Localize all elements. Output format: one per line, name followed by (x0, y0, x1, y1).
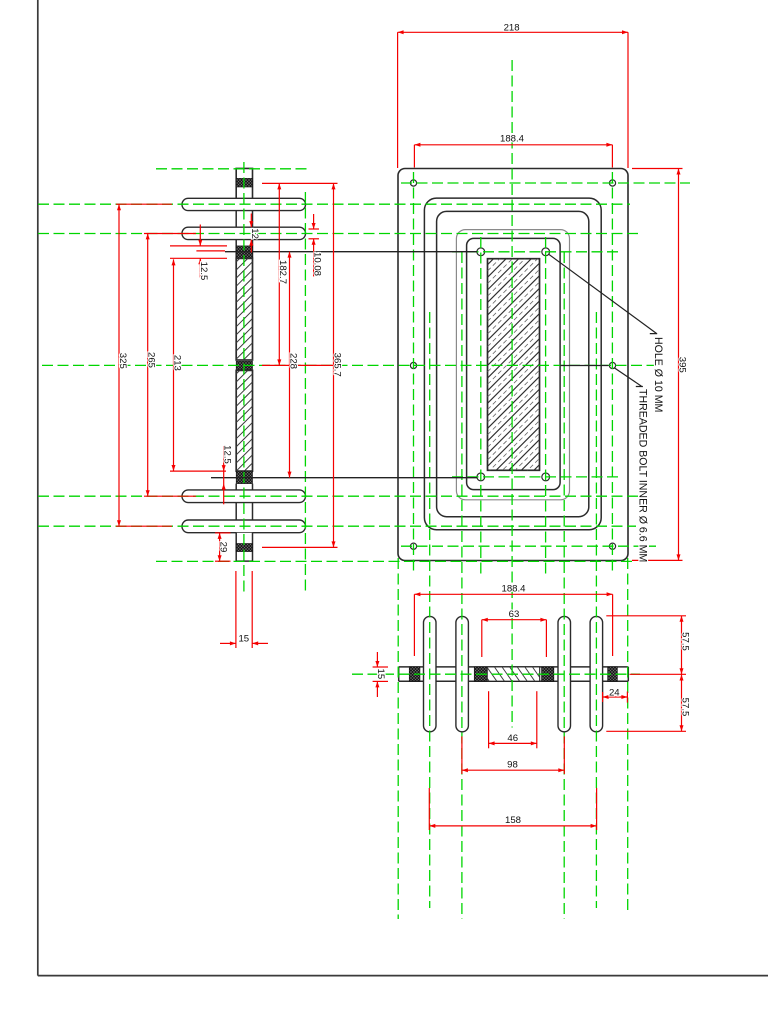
dim 218 ext left (397, 32, 399, 168)
bottom fin B (456, 616, 469, 731)
svg-text:57.5: 57.5 (679, 698, 690, 717)
section fin 1 (182, 198, 306, 210)
centreline hole col right (611, 172, 613, 572)
centreline fin3 (38, 495, 638, 497)
dim 57.5 lower (681, 674, 683, 731)
plate step 5 outline (467, 238, 560, 489)
svg-text:10.08: 10.08 (311, 252, 322, 276)
bottom hatched core (487, 667, 540, 681)
dim 29 ticks (215, 532, 231, 534)
dim 15 bv arrows (376, 652, 378, 667)
section hatched shaft upper (236, 258, 252, 360)
dim 10.08 arrows (313, 214, 315, 229)
svg-text:12.5: 12.5 (198, 262, 209, 281)
centreline plate right edge (627, 558, 629, 914)
plate step 2 outline (424, 198, 601, 530)
section fin 3 (182, 490, 306, 503)
dim 15 left ext (235, 571, 237, 648)
svg-text:228: 228 (287, 353, 298, 369)
bolt circle top-right (542, 248, 550, 256)
centreline bottom view (352, 673, 640, 675)
section middle band (236, 361, 252, 369)
centreline hole row bottom (401, 545, 656, 547)
dim 228 ext stub (196, 250, 225, 252)
centreline plate axis (511, 60, 513, 728)
centreline bolt row top (452, 251, 622, 253)
dim 46 line (489, 742, 537, 744)
hole mid-right (609, 362, 615, 368)
leader hole label (549, 254, 658, 333)
dim 228 line (289, 252, 291, 478)
dim 57.5 upper (681, 616, 683, 675)
hole bottom-right (609, 543, 615, 549)
hole top-right (609, 180, 615, 186)
dim 12 arrows (250, 214, 252, 228)
plate step 4 outline (456, 230, 569, 500)
dim 182.7 line (278, 183, 280, 365)
hole top-left (410, 180, 416, 186)
dim 218 ext right (627, 32, 629, 168)
dim 395 line (678, 169, 680, 561)
leader threaded bolt label (614, 368, 643, 387)
bottom dark block far-right (608, 667, 618, 681)
dim 188.4 top ext (413, 145, 415, 168)
svg-text:THREADED BOLT INNER Ø 6.6 MM: THREADED BOLT INNER Ø 6.6 MM (636, 389, 648, 562)
dim 218 line (398, 31, 628, 33)
dim 63 line (482, 619, 547, 621)
dim 29 line (219, 533, 221, 561)
section bar segment a (235, 211, 237, 228)
dim 188.4 bot line (414, 593, 612, 595)
svg-text:188.4: 188.4 (501, 584, 526, 595)
svg-text:182.7: 182.7 (277, 260, 288, 284)
dim 63 ext (481, 620, 483, 657)
dim 12.5 top ticks (170, 245, 227, 247)
dim 10.08 ticks (309, 228, 320, 230)
section gasket band 2 (236, 246, 252, 258)
bottom dark block left (474, 667, 487, 681)
plate step 3 outline (437, 211, 589, 516)
section fin 4 (182, 520, 306, 533)
dim 325 ext (116, 203, 172, 205)
hole mid-left (410, 362, 416, 368)
dim 98 line (462, 769, 564, 771)
centreline fin D (595, 312, 597, 908)
dim 325 line (118, 204, 120, 526)
hole bottom-left (410, 543, 416, 549)
svg-text:265: 265 (146, 352, 157, 368)
centreline fin4 (38, 525, 636, 527)
svg-text:158: 158 (505, 815, 521, 826)
dim 12.5 bot line (223, 446, 225, 504)
bottom bar outline (399, 666, 424, 668)
dim 188.4 top line (414, 144, 612, 146)
section bar segment b (235, 240, 237, 259)
svg-text:57.5: 57.5 (679, 632, 690, 651)
dim 158 line (429, 825, 596, 827)
sheet border left (37, 0, 39, 976)
section gasket band 4 (236, 544, 252, 552)
dim 12.5 bot tick (170, 470, 226, 472)
svg-text:12.5: 12.5 (222, 445, 233, 464)
svg-text:15: 15 (238, 634, 249, 645)
bottom fin C (558, 616, 571, 731)
centreline hole row top (401, 182, 690, 184)
section gasket band 3 (236, 471, 252, 484)
centreline fin1 (38, 203, 630, 205)
dim 395 ext (632, 168, 683, 170)
bottom dark block right (542, 667, 554, 681)
centreline section axis (243, 162, 245, 596)
dim 158 ext (428, 788, 430, 830)
centreline fin ends (304, 192, 306, 592)
sheet border bottom (38, 975, 768, 977)
dim 213 line (173, 259, 175, 471)
section top cap (236, 168, 252, 198)
projection line mid right (560, 365, 608, 367)
centreline fin B (461, 252, 463, 919)
centreline fin A (429, 312, 431, 908)
svg-text:213: 213 (171, 355, 182, 371)
svg-text:29: 29 (217, 542, 228, 553)
centreline fin C (563, 252, 565, 919)
svg-text:15: 15 (375, 669, 386, 680)
centreline cap top (156, 168, 309, 170)
section bar segment d (235, 503, 237, 520)
centreline middle (42, 364, 656, 366)
plate outer outline (398, 169, 628, 561)
section hatched shaft lower (236, 370, 252, 471)
section bar segment c (235, 484, 237, 490)
centreline bolt row bottom (452, 476, 622, 478)
dim 46 ext (488, 691, 490, 748)
section fin 2 (182, 227, 306, 239)
svg-text:395: 395 (676, 357, 687, 373)
svg-text:24: 24 (609, 688, 620, 699)
centreline plate left edge (397, 558, 399, 919)
svg-text:325: 325 (117, 353, 128, 369)
dim 57.5 ext (606, 615, 686, 617)
svg-text:63: 63 (509, 609, 520, 620)
projection line bolt row bottom (211, 477, 477, 479)
section bottom cap (236, 533, 252, 561)
dim 182.7 ext (262, 364, 338, 366)
section gasket band 1 (236, 178, 252, 187)
svg-text:12: 12 (249, 228, 260, 239)
svg-text:98: 98 (507, 759, 518, 770)
svg-text:218: 218 (504, 23, 520, 34)
svg-text:365.7: 365.7 (331, 353, 342, 377)
centreline bar bottom (156, 560, 632, 562)
dim 24 ext (602, 692, 604, 702)
bottom fin D (590, 616, 603, 731)
dim 265 ext (144, 233, 196, 235)
centreline bolt col right (545, 237, 547, 575)
bottom fin A (424, 616, 437, 731)
svg-text:46: 46 (507, 733, 518, 744)
dim 15 bv ticks (373, 666, 388, 668)
centreline bolt col left (480, 237, 482, 575)
dim 365.7 line (333, 183, 335, 547)
centreline fin2 (38, 233, 640, 235)
bolt circle top-left (477, 248, 485, 256)
dim 365.7 ext (262, 182, 338, 184)
dim 98 ext (461, 736, 463, 774)
dim 188.4 bot ext (413, 594, 415, 656)
dim 24 line (603, 696, 628, 698)
dim 265 line (147, 233, 149, 496)
dim 12.5 top arrows (199, 225, 201, 246)
bolt circle bottom-left (477, 473, 485, 481)
centreline hole col left (413, 172, 415, 572)
dim 15 left line (220, 642, 236, 644)
svg-text:188.4: 188.4 (500, 134, 525, 145)
svg-text:HOLE Ø 10 MM: HOLE Ø 10 MM (652, 337, 664, 412)
bottom dark block far-left (409, 667, 420, 681)
hatched core plan (488, 259, 540, 471)
bolt circle bottom-right (542, 473, 550, 481)
projection line bolt row top (225, 251, 477, 253)
